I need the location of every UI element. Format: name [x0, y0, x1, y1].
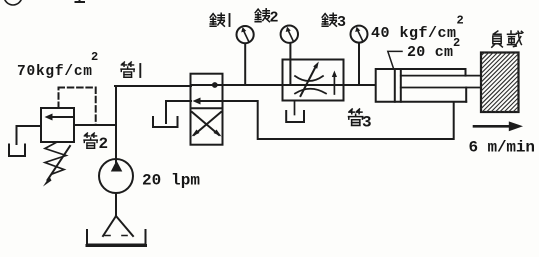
cylinder piston — [395, 69, 401, 102]
relief valve internal flow arrow — [50, 116, 72, 118]
label gauge3 (錶3) — [322, 13, 346, 31]
svg-text:2: 2 — [270, 10, 279, 27]
relief valve adjust arrow — [48, 146, 71, 180]
label gauge2 (錶2) — [255, 9, 278, 27]
velocity arrow — [474, 125, 510, 128]
directional valve DV body — [191, 74, 223, 145]
svg-text:20 cm: 20 cm — [407, 44, 453, 61]
load box (hatched) — [481, 53, 519, 113]
relief valve V1 body — [41, 108, 74, 142]
svg-text:6 m/min: 6 m/min — [469, 139, 536, 157]
wire: pump discharge vertical + pipe1 horizontal — [115, 86, 191, 162]
gauge G1 (錶1) — [237, 26, 254, 43]
tank T3 (valve drain) — [153, 117, 178, 127]
gauge G1 stem — [244, 44, 246, 86]
label 40 kgf/cm2 — [371, 14, 464, 43]
tank T2 (main reservoir) — [87, 230, 146, 245]
label gauge1 (錶1) — [210, 13, 229, 26]
label 6 m/min — [469, 139, 536, 157]
flow control compensator arrow — [333, 75, 335, 94]
flow control throttle arcs — [295, 76, 323, 81]
svg-text:3: 3 — [362, 114, 372, 132]
cylinder C1 barrel — [376, 69, 467, 102]
gauge G3 (錶3) — [351, 26, 368, 43]
tank T4 (flow control drain) — [286, 111, 304, 122]
wire: flow control drain — [294, 101, 296, 115]
label load (負載) — [492, 31, 523, 47]
gauge G2 stem — [289, 43, 291, 84]
relief valve spring — [45, 142, 66, 174]
label pipe3 (管3) — [349, 109, 372, 131]
wire: pump suction — [103, 193, 133, 236]
suction strainer dashes — [105, 235, 130, 237]
svg-text:2: 2 — [453, 36, 460, 50]
label 70kgf/cm2 — [17, 50, 98, 80]
tank T1 (relief drain) — [9, 145, 25, 157]
directional valve position divider — [191, 107, 223, 109]
wire: relief valve outlet to tank — [17, 126, 42, 144]
svg-text:70kgf/cm: 70kgf/cm — [17, 64, 92, 80]
flow control adjust arrow — [301, 66, 317, 96]
svg-text:2: 2 — [457, 14, 464, 28]
main pressure line through valve to cylinder — [191, 84, 376, 86]
label 20 cm2 — [407, 36, 460, 61]
flow control valve FC body — [283, 60, 344, 101]
gauge G3 stem — [358, 43, 360, 85]
wire: valve tank port to tank T3 — [166, 101, 191, 123]
junction dot — [212, 82, 218, 88]
leader line for 20 cm2 — [388, 51, 402, 67]
pump flow triangle — [111, 161, 123, 172]
label 20 lpm — [142, 172, 200, 190]
pump P1 — [99, 159, 133, 193]
svg-text:20 lpm: 20 lpm — [142, 172, 200, 190]
label pipe2 (管2) — [84, 133, 108, 153]
partial letter stem cut at top edge — [76, 0, 85, 2]
wire: valve B-port return line to cylinder rod side — [223, 101, 454, 139]
gauge G2 (錶2) — [281, 26, 298, 43]
svg-text:2: 2 — [91, 50, 98, 64]
svg-text:3: 3 — [337, 14, 346, 31]
label pipe1 (管1) — [121, 62, 140, 77]
cylinder rod — [401, 76, 481, 88]
svg-text:40 kgf/cm: 40 kgf/cm — [371, 25, 456, 42]
svg-text:2: 2 — [99, 135, 109, 153]
valve crossed arrows (lower position) — [192, 112, 221, 135]
partial circled-number glyph cut at top edge — [4, 0, 22, 5]
valve port line to tank with arrow — [199, 100, 223, 102]
wire: relief valve inlet from pump line — [74, 124, 116, 126]
pilot line (dashed) from valve top to pressure line — [59, 88, 96, 126]
